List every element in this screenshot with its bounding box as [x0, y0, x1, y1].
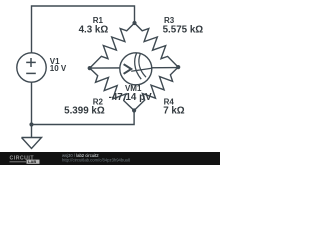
svg-text:7 kΩ: 7 kΩ — [163, 106, 185, 117]
svg-text:5.399 kΩ: 5.399 kΩ — [64, 106, 105, 117]
svg-text:4.3 kΩ: 4.3 kΩ — [79, 25, 109, 36]
svg-text:10 V: 10 V — [50, 64, 67, 73]
svg-text:-47.14 pV: -47.14 pV — [109, 92, 152, 103]
svg-text:http://circuitlab.com/c/84pz3h: http://circuitlab.com/c/84pz3h94bua8 — [62, 158, 131, 163]
svg-text:LAB: LAB — [28, 159, 36, 164]
svg-text:5.575 kΩ: 5.575 kΩ — [163, 25, 204, 36]
